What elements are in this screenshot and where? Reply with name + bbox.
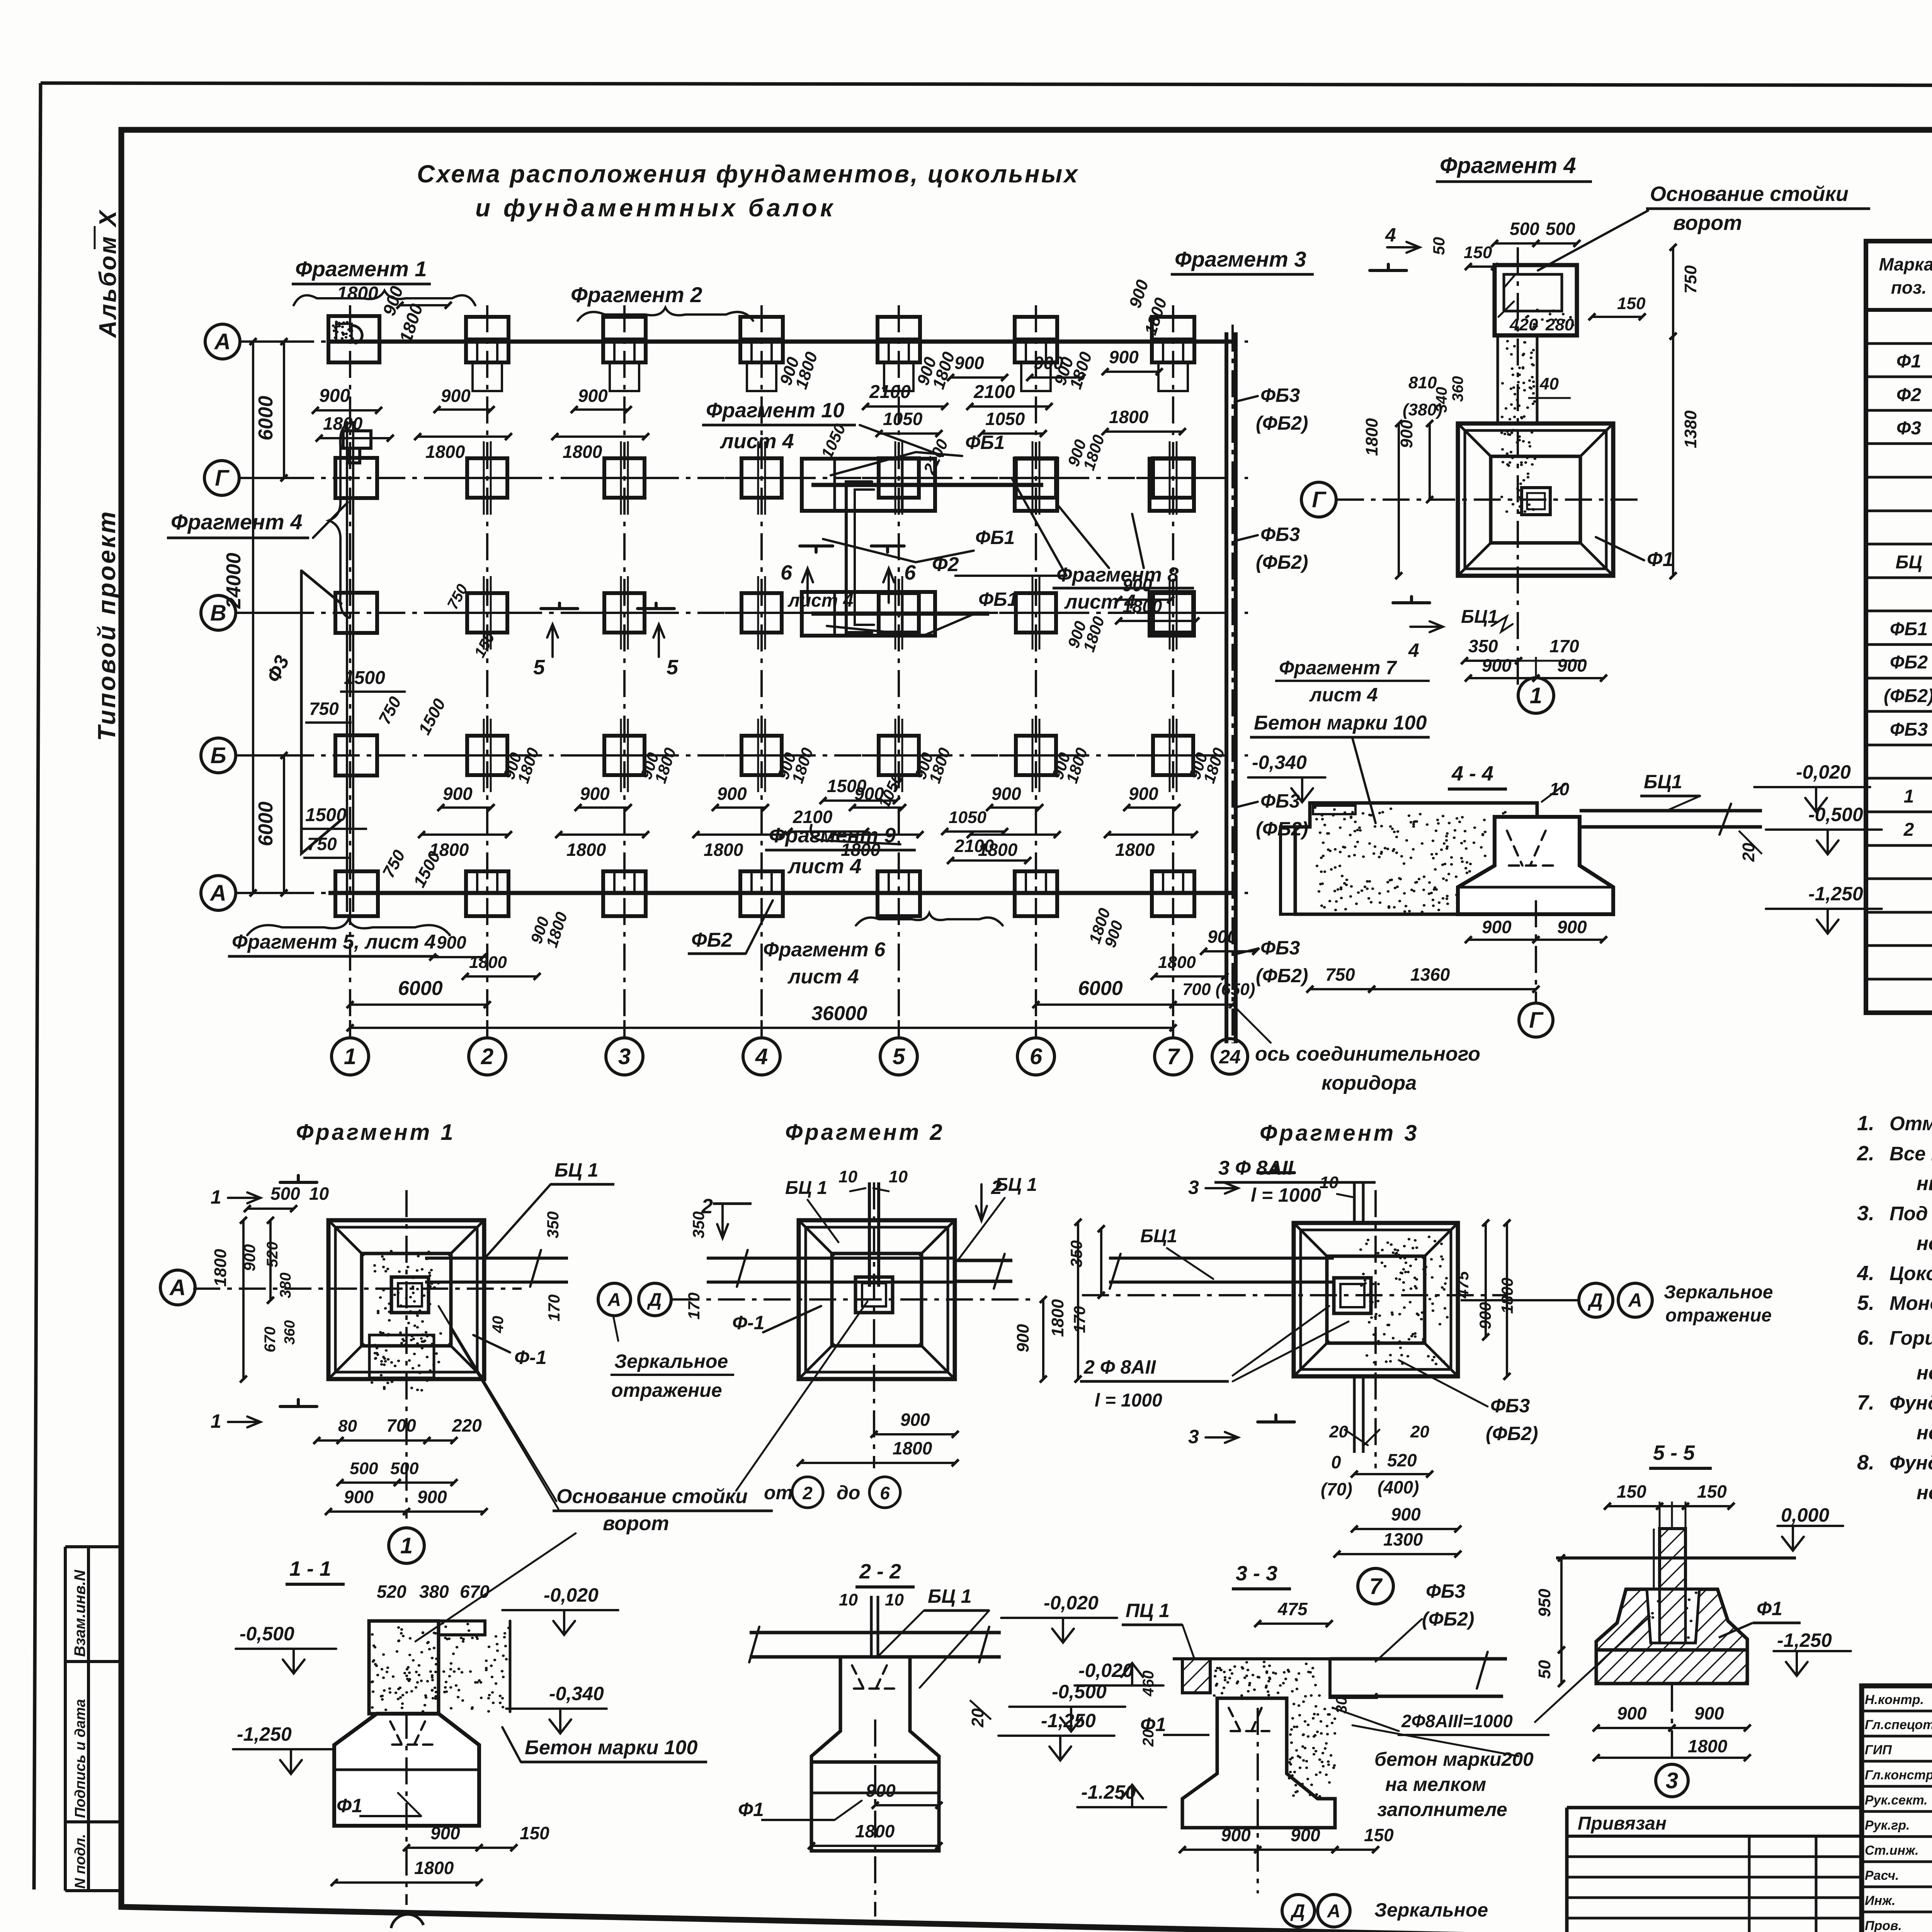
plan row axis Б dash-dot [241, 754, 1248, 757]
svg-text:А: А [169, 1275, 186, 1300]
svg-text:Г: Г [215, 466, 230, 491]
svg-text:Ф1: Ф1 [337, 1795, 362, 1816]
plan column axis 7 dash-dot [1172, 305, 1174, 1039]
foundation top row column 3 [603, 317, 646, 362]
svg-text:670: 670 [460, 1582, 490, 1602]
svg-text:ФБ1: ФБ1 [965, 432, 1005, 453]
svg-text:1: 1 [1904, 786, 1914, 807]
svg-text:900: 900 [900, 1410, 930, 1430]
section 3-3 beam right [1330, 1657, 1507, 1661]
section 3-3 pedestal [1182, 1698, 1335, 1828]
foundation at column 4 row y=1237 [742, 458, 782, 498]
svg-text:БЦ: БЦ [1896, 552, 1922, 573]
axis circle 1 fragment4 [1518, 678, 1554, 713]
svg-text:500: 500 [350, 1459, 378, 1478]
svg-text:Н.контр.: Н.контр. [1865, 1692, 1924, 1707]
svg-text:150: 150 [1697, 1481, 1727, 1502]
svg-text:20: 20 [1140, 1730, 1157, 1747]
foundation at column 5 row y=1586 [879, 593, 919, 633]
svg-text:10: 10 [838, 1167, 857, 1186]
svg-text:Цокольные и фундаментные б: Цокольные и фундаментные балки устанавли… [1889, 1262, 1932, 1284]
axis circle 3 bottom [606, 1038, 643, 1075]
svg-text:1050: 1050 [985, 409, 1025, 429]
svg-text:БЦ1: БЦ1 [1461, 607, 1498, 627]
svg-text:350: 350 [1067, 1240, 1085, 1267]
dim 900 below top square col near 1616 [574, 408, 628, 411]
svg-text:лист 4: лист 4 [787, 966, 859, 988]
svg-text:6: 6 [904, 561, 916, 584]
axis vertical dash-dot fragment4 [1517, 247, 1519, 692]
svg-text:900: 900 [1557, 655, 1587, 675]
foundation at column 7 row y=1237 [1153, 458, 1193, 498]
svg-text:Расч.: Расч. [1865, 1868, 1899, 1883]
svg-text:ФБ3: ФБ3 [1890, 719, 1928, 740]
svg-text:ФБ2: ФБ2 [1890, 652, 1928, 673]
svg-text:Гл.констр.: Гл.констр. [1865, 1768, 1932, 1782]
svg-text:1: 1 [400, 1533, 413, 1558]
foundation at column 4 row y=1586 [742, 593, 782, 633]
svg-text:Фрагмент 5, лист 4: Фрагмент 5, лист 4 [232, 931, 436, 953]
svg-text:6: 6 [880, 1483, 890, 1503]
section 2-2 beam [750, 1631, 1001, 1634]
svg-text:Инж.: Инж. [1865, 1893, 1895, 1908]
svg-text:Фрагмент 2: Фрагмент 2 [571, 282, 702, 307]
foundation bottom row column 6 [1015, 871, 1057, 916]
svg-text:(ФБ2): (ФБ2) [1256, 551, 1308, 573]
plan beam line along row A top [328, 340, 1233, 344]
axis circle Б [201, 738, 236, 773]
svg-text:Зеркальное: Зеркальное [1374, 1899, 1488, 1921]
svg-text:1.: 1. [1857, 1112, 1874, 1135]
svg-text:3: 3 [1188, 1426, 1199, 1447]
dim 900 below top square col near 1261 [437, 408, 491, 411]
svg-text:(400): (400) [1378, 1477, 1419, 1497]
svg-text:А: А [1628, 1289, 1642, 1311]
sheet outer top edge line [41, 83, 1932, 86]
svg-text:1050: 1050 [949, 808, 986, 827]
svg-text:500: 500 [270, 1184, 300, 1204]
svg-text:170: 170 [1070, 1306, 1088, 1333]
svg-text:Рук.сект.: Рук.сект. [1865, 1793, 1928, 1808]
svg-text:150: 150 [1364, 1825, 1394, 1845]
section mark 4 bottom-left [1393, 597, 1430, 603]
foundation at column 6 row y=1955 [1016, 736, 1056, 775]
gate post second detail near Г [343, 431, 371, 463]
svg-text:Ф3: Ф3 [1896, 418, 1921, 439]
svg-text:Фрагмент 4: Фрагмент 4 [1440, 153, 1576, 178]
svg-text:900: 900 [1122, 575, 1152, 595]
svg-text:лист 4: лист 4 [787, 590, 854, 611]
svg-text:и фундаментных балок: и фундаментных балок [475, 194, 836, 222]
bottom dim 36000 [350, 1027, 1173, 1029]
plan column axis 2 dash-dot [486, 305, 488, 1039]
svg-text:520: 520 [264, 1242, 281, 1267]
svg-text:350: 350 [689, 1211, 707, 1238]
svg-text:Д: Д [647, 1290, 662, 1310]
axis circle В [201, 595, 236, 630]
svg-text:20: 20 [968, 1708, 987, 1728]
foundation at column 6 row y=1237 [1016, 458, 1056, 498]
foundation at column 4 row y=1955 [742, 736, 782, 775]
svg-text:900: 900 [1482, 917, 1512, 937]
svg-text:Отметка подошвы фундаментов: Отметка подошвы фундаментов минус 1,250. [1889, 1112, 1932, 1134]
svg-text:900: 900 [1129, 784, 1158, 804]
svg-text:3: 3 [1188, 1177, 1199, 1198]
fragment 2 axis [672, 1298, 1036, 1301]
svg-text:ФБ2: ФБ2 [691, 929, 732, 951]
axis circle Г [204, 461, 239, 495]
axis circle Г fragment4 [1301, 482, 1336, 517]
axis circle 24 [1212, 1039, 1248, 1074]
svg-text:170: 170 [685, 1293, 703, 1320]
svg-text:900: 900 [1014, 1324, 1032, 1352]
svg-text:Д: Д [1587, 1289, 1603, 1311]
svg-text:ПЦ 1: ПЦ 1 [1126, 1600, 1170, 1621]
fragment 3 plan square [1294, 1223, 1458, 1376]
fragment 1 axis circle А [160, 1270, 195, 1305]
plan column axis 6 dash-dot [1035, 305, 1037, 1039]
svg-text:Ф1: Ф1 [1896, 351, 1921, 372]
foundation at column 6 row y=1586 [1016, 593, 1056, 633]
svg-text:(ФБ2): (ФБ2) [1422, 1608, 1475, 1630]
svg-text:900: 900 [580, 784, 610, 804]
section 5-5 hatched post [1660, 1529, 1685, 1643]
svg-text:900: 900 [1291, 1825, 1320, 1845]
plan row axis Г dash-dot [241, 477, 1248, 479]
foundation top row column 4 [740, 317, 783, 362]
foundation at column 2 row y=1955 [467, 736, 507, 775]
privyazan table [1567, 1806, 1862, 1810]
beam heavy line row В middle [811, 612, 989, 616]
svg-text:150: 150 [520, 1823, 549, 1843]
svg-text:3.: 3. [1857, 1202, 1874, 1225]
section 5-5 ground line [1556, 1556, 1796, 1560]
svg-text:750: 750 [1681, 265, 1700, 294]
svg-text:2: 2 [481, 1044, 493, 1069]
svg-text:1800: 1800 [1122, 596, 1162, 616]
svg-text:Зеркальное: Зеркальное [614, 1350, 728, 1372]
svg-text:20: 20 [1410, 1422, 1429, 1441]
beam ФБ3 along axis 24 double line [1225, 332, 1228, 1043]
spec table row 20 [1866, 978, 1932, 981]
svg-text:2 - 2: 2 - 2 [859, 1560, 901, 1583]
svg-text:5.: 5. [1857, 1291, 1874, 1315]
axis circle 1 bottom [332, 1038, 369, 1075]
margin bottom stamp boxes [64, 1547, 67, 1891]
svg-text:Все незамаркированные на схем: Все незамаркированные на схеме фундамент… [1889, 1143, 1932, 1165]
svg-text:900: 900 [1557, 917, 1587, 937]
plan column axis 3 dash-dot [623, 305, 626, 1039]
svg-text:Привязан: Привязан [1578, 1813, 1667, 1834]
section 4-4 concrete mass outline [1295, 803, 1537, 914]
svg-text:-0,500: -0,500 [240, 1623, 294, 1645]
svg-text:500: 500 [1546, 219, 1575, 239]
fragment 3 axis [1082, 1294, 1507, 1296]
svg-text:5: 5 [893, 1044, 905, 1069]
svg-text:Фрагмент 1: Фрагмент 1 [296, 1120, 456, 1145]
svg-text:Альбом X: Альбом X [95, 209, 121, 338]
wall strip double line column 1 [346, 421, 348, 912]
svg-text:1800: 1800 [1362, 418, 1381, 456]
plan column axis 4 dash-dot [760, 305, 763, 1039]
plan axis 24 line [1231, 325, 1234, 1043]
spec table row 11 [1866, 677, 1932, 680]
svg-text:Фрагмент 7: Фрагмент 7 [1279, 657, 1397, 679]
svg-text:Типовой проект: Типовой проект [93, 510, 121, 741]
svg-text:поз.: поз. [1891, 277, 1927, 298]
svg-text:-1,250: -1,250 [1808, 883, 1863, 905]
svg-text:6.: 6. [1857, 1326, 1874, 1349]
foundation bottom row column 4 [740, 871, 783, 916]
svg-text:-0,020: -0,020 [1796, 761, 1851, 783]
foundation at column 3 row y=1955 [604, 736, 645, 775]
svg-text:ворот: ворот [603, 1512, 669, 1535]
svg-text:700: 700 [386, 1415, 416, 1435]
svg-text:лист 4: лист 4 [787, 855, 862, 878]
svg-text:ГИП: ГИП [1865, 1743, 1892, 1757]
svg-text:заполнителе: заполнителе [1377, 1799, 1507, 1820]
svg-text:750: 750 [307, 834, 337, 854]
svg-text:коридора: коридора [1321, 1072, 1417, 1094]
svg-text:Фрагмент 8: Фрагмент 8 [1056, 564, 1179, 586]
svg-text:ного раствора состава 1 : 2: ного раствора состава 1 : 2 с гидрофобны… [1917, 1362, 1932, 1384]
spec table outer frame [1866, 241, 1932, 1013]
svg-text:360: 360 [282, 1320, 298, 1345]
svg-text:6000: 6000 [255, 396, 277, 440]
svg-text:6000: 6000 [255, 801, 277, 846]
svg-text:7.: 7. [1857, 1391, 1874, 1414]
bottom dim 6000 left [350, 1003, 487, 1006]
svg-text:1: 1 [211, 1186, 221, 1208]
svg-text:Под фундаменты выполнить по: Под фундаменты выполнить подготовку из т… [1889, 1202, 1932, 1225]
foundation corner 1/A with gate post base [328, 316, 379, 362]
svg-text:280: 280 [1545, 315, 1574, 334]
section 4-4 bottom dims 900 900 [1468, 939, 1536, 941]
svg-text:(ФБ2): (ФБ2) [1486, 1423, 1538, 1444]
svg-text:ФБ3: ФБ3 [1426, 1580, 1465, 1602]
svg-text:Ф-1: Ф-1 [732, 1312, 765, 1333]
svg-text:-1,250: -1,250 [1777, 1629, 1832, 1651]
dim 900/1800 labels under Б row col near 1261 [441, 806, 491, 809]
foundation at column 5 row y=1955 [879, 736, 919, 775]
beam heavy line row Г middle [811, 483, 1043, 487]
svg-text:360: 360 [1449, 376, 1466, 402]
leader beton marki 200 to s55 [1534, 1616, 1650, 1723]
spec table row 14 [1866, 777, 1932, 780]
svg-text:Взам.инв.N: Взам.инв.N [71, 1570, 88, 1657]
svg-text:900: 900 [441, 386, 471, 406]
svg-text:900: 900 [866, 1781, 896, 1801]
svg-text:ФБ1: ФБ1 [978, 588, 1018, 610]
svg-text:Фрагмент 1: Фрагмент 1 [295, 257, 427, 281]
svg-text:-0,340: -0,340 [1252, 752, 1307, 773]
svg-text:2.: 2. [1857, 1142, 1874, 1165]
spec table row 10 [1866, 643, 1932, 646]
svg-text:1800: 1800 [425, 442, 465, 462]
svg-text:10: 10 [1320, 1173, 1338, 1192]
svg-text:до: до [837, 1482, 860, 1503]
foundation bottom row column 2 [466, 871, 509, 916]
svg-text:Фрагмент 2: Фрагмент 2 [785, 1120, 945, 1145]
axis circle 6 bottom [1017, 1038, 1054, 1075]
svg-text:1800: 1800 [1688, 1736, 1728, 1756]
svg-text:1800: 1800 [1048, 1299, 1067, 1337]
foundation top row column 2 [466, 317, 509, 362]
svg-text:950: 950 [1535, 1588, 1554, 1617]
svg-text:БЦ 1: БЦ 1 [928, 1585, 972, 1607]
fragment 3 rebar vertical lines [1353, 1182, 1356, 1223]
concrete strip below post [1497, 335, 1499, 425]
svg-text:ФБ1: ФБ1 [975, 527, 1015, 548]
svg-text:А: А [209, 881, 226, 906]
svg-text:лист 4: лист 4 [1309, 684, 1378, 706]
svg-text:4.: 4. [1857, 1262, 1874, 1285]
svg-text:1800: 1800 [566, 840, 606, 860]
stamp outer rect [1862, 1686, 1932, 1932]
spec table header row line [1866, 308, 1932, 312]
svg-text:БЦ1: БЦ1 [1140, 1226, 1177, 1247]
foundation at column 2 row y=1586 [467, 593, 507, 633]
svg-text:Рук.гр.: Рук.гр. [1865, 1818, 1910, 1833]
svg-text:ного и утрамбованного песчан: ного и утрамбованного песчаного слоя тол… [1917, 1232, 1932, 1254]
svg-text:ФБ3: ФБ3 [1260, 384, 1300, 406]
svg-text:(70): (70) [1321, 1479, 1352, 1499]
section 5-5 dim 950 [1560, 1558, 1563, 1650]
svg-text:ФБ3: ФБ3 [1490, 1395, 1530, 1417]
center pocket square [1522, 488, 1550, 515]
svg-text:Г: Г [1529, 1008, 1544, 1033]
dim 900/1800 labels under Б row col near 1971 [715, 806, 765, 809]
svg-text:3 - 3: 3 - 3 [1236, 1562, 1277, 1585]
plan beam line along row A bottom [328, 891, 1233, 895]
svg-text:1360: 1360 [1410, 964, 1450, 985]
svg-text:2Ф8АIIl=1000: 2Ф8АIIl=1000 [1401, 1711, 1513, 1731]
svg-text:3 Ф 8АII: 3 Ф 8АII [1218, 1157, 1294, 1179]
axis circle 7 bottom [1155, 1038, 1192, 1075]
svg-text:2100: 2100 [793, 807, 833, 827]
svg-text:10: 10 [885, 1590, 904, 1609]
svg-text:900: 900 [240, 1244, 259, 1271]
spec table row 5 [1866, 476, 1932, 479]
svg-text:1800: 1800 [1158, 953, 1196, 972]
foundation at column 7 row y=1955 [1153, 736, 1193, 775]
svg-text:Основание стойки: Основание стойки [556, 1485, 748, 1508]
foundation top row column 7 [1152, 317, 1194, 362]
svg-text:36000: 36000 [811, 1002, 867, 1025]
svg-text:900: 900 [437, 932, 466, 952]
svg-text:1800: 1800 [704, 840, 743, 860]
fragment4 dims 900 900 bottom [1468, 677, 1536, 679]
svg-text:4: 4 [755, 1044, 768, 1069]
svg-text:Д: Д [1290, 1901, 1305, 1922]
foundation at column 2 row y=1237 [467, 458, 507, 498]
svg-text:Ф-1: Ф-1 [514, 1347, 547, 1368]
svg-text:БЦ 1: БЦ 1 [554, 1159, 599, 1181]
svg-text:-1,250: -1,250 [1041, 1710, 1096, 1731]
svg-text:2: 2 [991, 1177, 1002, 1198]
svg-text:5 - 5: 5 - 5 [1653, 1441, 1695, 1464]
fragment 3 circle 7 [1358, 1568, 1393, 1604]
dim 900/1800 labels under Б row col near 3036 [1127, 806, 1177, 809]
axis circle Г under section 4-4 [1519, 1003, 1553, 1037]
svg-text:900: 900 [1207, 927, 1237, 947]
spec table row 7 [1866, 543, 1932, 546]
svg-text:6000: 6000 [1078, 977, 1123, 1000]
svg-text:5: 5 [533, 656, 545, 679]
svg-text:Бетон марки 100: Бетон марки 100 [1254, 712, 1427, 734]
svg-text:750: 750 [309, 699, 339, 719]
svg-text:Схема расположения фундаме: Схема расположения фундаментов, цокольны… [417, 160, 1079, 188]
beam ФБ1 rectangle row В cols 4-5 [802, 592, 935, 636]
svg-text:20: 20 [1329, 1422, 1348, 1441]
fragment 1 section marks 1-1 [280, 1175, 317, 1182]
dim 900/1800 labels under Б row col near 2326 [852, 806, 903, 809]
circles Д А s33 [1282, 1895, 1315, 1927]
svg-text:Ст.инж.: Ст.инж. [1865, 1843, 1919, 1858]
svg-text:1500: 1500 [344, 668, 385, 688]
section 5-5 dim 50 [1560, 1650, 1563, 1684]
svg-text:2100: 2100 [954, 836, 994, 856]
svg-text:Марка,: Марка, [1879, 254, 1932, 274]
svg-text:7: 7 [1369, 1574, 1383, 1599]
svg-text:-0,500: -0,500 [1052, 1681, 1107, 1702]
svg-text:ФБ1: ФБ1 [1890, 619, 1928, 639]
svg-text:520: 520 [1387, 1450, 1417, 1470]
section mark 6 right [871, 546, 904, 552]
svg-text:А: А [607, 1290, 621, 1310]
svg-text:1380: 1380 [1681, 410, 1700, 448]
svg-text:Монолитные участки фундамент: Монолитные участки фундаментов выполнить… [1889, 1292, 1932, 1314]
svg-text:отражение: отражение [611, 1379, 722, 1401]
svg-text:1800: 1800 [1498, 1278, 1516, 1314]
axis circle А top [205, 324, 240, 359]
svg-text:900: 900 [1391, 1504, 1421, 1524]
svg-text:24: 24 [1219, 1046, 1241, 1068]
svg-text:2100: 2100 [869, 382, 911, 402]
fragment 1 axis circle 1 bottom [389, 1528, 424, 1563]
svg-text:1: 1 [211, 1410, 221, 1432]
svg-text:350: 350 [1468, 636, 1498, 656]
svg-text:Фрагмент 3: Фрагмент 3 [1175, 247, 1306, 271]
foundation bottom row column 5 [878, 871, 920, 916]
svg-text:Пров.: Пров. [1865, 1918, 1902, 1932]
svg-text:150: 150 [1464, 243, 1492, 262]
svg-text:700 (650): 700 (650) [1182, 980, 1255, 999]
svg-text:А: А [1327, 1901, 1341, 1922]
svg-text:500: 500 [390, 1459, 419, 1478]
svg-text:380: 380 [277, 1272, 294, 1298]
svg-text:40: 40 [1539, 374, 1559, 393]
svg-text:1800: 1800 [323, 413, 363, 434]
svg-text:1 - 1: 1 - 1 [289, 1557, 331, 1580]
svg-text:900: 900 [1476, 1302, 1494, 1329]
plan row axis В dash-dot [241, 612, 1248, 614]
foundation Ф3 at column 1 row y=1955 [335, 735, 377, 776]
svg-text:лист 4: лист 4 [719, 430, 794, 453]
svg-text:900: 900 [992, 784, 1021, 804]
svg-text:10: 10 [309, 1184, 329, 1204]
section 5-5 post lines above [1659, 1502, 1661, 1529]
svg-text:1: 1 [344, 1044, 356, 1069]
svg-text:20: 20 [1739, 843, 1758, 862]
svg-text:Фрагмент 4: Фрагмент 4 [171, 510, 302, 534]
svg-text:30: 30 [1333, 1697, 1350, 1714]
svg-text:Горизонтальную гидроизоляцию: Горизонтальную гидроизоляцию выполнить н… [1889, 1327, 1932, 1349]
svg-text:810: 810 [1408, 373, 1437, 392]
beam rectangle row Г col 6 [1015, 459, 1057, 511]
beam ФБ1 rectangle row Г cols 4-5 [802, 459, 935, 511]
svg-text:N подл.: N подл. [72, 1834, 88, 1889]
